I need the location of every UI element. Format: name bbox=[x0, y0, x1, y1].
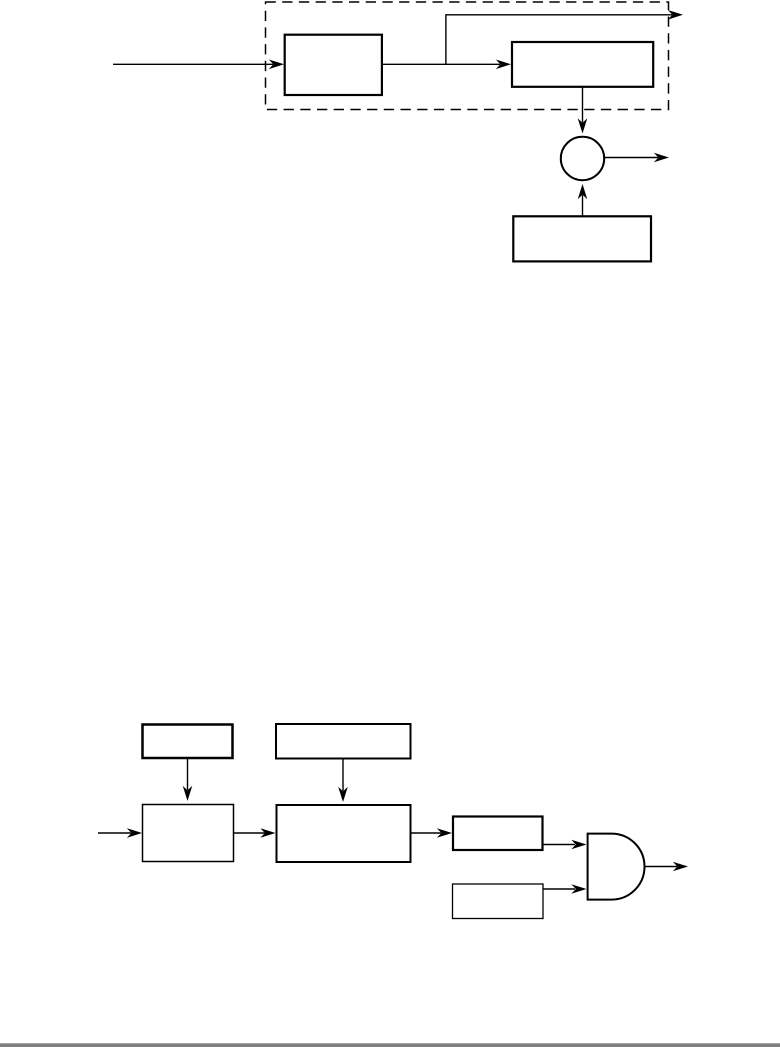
dashed enclosure (top diagram) bbox=[266, 2, 669, 110]
block I (small thin-border box, lower input) bbox=[453, 884, 544, 919]
block H (small thick-border box before gate) bbox=[453, 817, 543, 851]
block D (small top-left box, bottom diagram) bbox=[143, 725, 233, 759]
wire: block C up into mixer bbox=[578, 184, 588, 216]
block F (bottom-left box) bbox=[143, 805, 234, 862]
wire: block A to block B bbox=[383, 60, 512, 70]
wire: block G to block H bbox=[411, 828, 452, 838]
wire: mixer output to the right bbox=[605, 153, 670, 163]
wire: block E down to block G bbox=[338, 759, 348, 802]
wire: block B down to mixer circle bbox=[578, 87, 588, 134]
wire: block H to AND gate input 1 bbox=[544, 840, 587, 850]
wire: block D down to block F bbox=[183, 759, 193, 802]
footer grey bar bbox=[0, 1043, 780, 1047]
wire: input arrow into block A bbox=[113, 60, 284, 70]
block B (right box inside dashed enclosure) bbox=[512, 42, 653, 87]
wire: input arrow into block F bbox=[98, 828, 142, 838]
mixer circle bbox=[561, 137, 604, 180]
wire: block F to block G bbox=[234, 828, 276, 838]
wire: feedback branch up and right out of enclosure bbox=[446, 10, 683, 64]
wire: AND gate output bbox=[645, 862, 689, 872]
block E (wide top box, bottom diagram) bbox=[276, 724, 411, 759]
block A (left box inside dashed enclosure) bbox=[285, 35, 382, 95]
wire: block I to AND gate input 2 bbox=[544, 884, 587, 894]
AND gate bbox=[588, 834, 645, 900]
block C (oscillator box below mixer) bbox=[513, 216, 651, 261]
block G (wide bottom box) bbox=[277, 805, 411, 862]
